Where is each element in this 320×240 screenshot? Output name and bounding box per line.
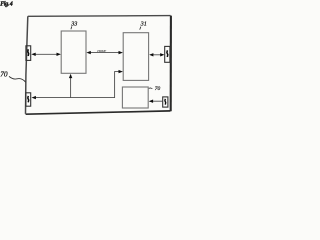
svg-text:4: 4 (9, 1, 13, 7)
svg-text:PRIME: PRIME (96, 49, 106, 53)
svg-text:70: 70 (0, 69, 8, 78)
svg-text:70: 70 (155, 86, 161, 92)
svg-text:31: 31 (140, 20, 147, 27)
svg-text:33: 33 (70, 21, 77, 28)
svg-text:Fig.: Fig. (0, 1, 10, 7)
